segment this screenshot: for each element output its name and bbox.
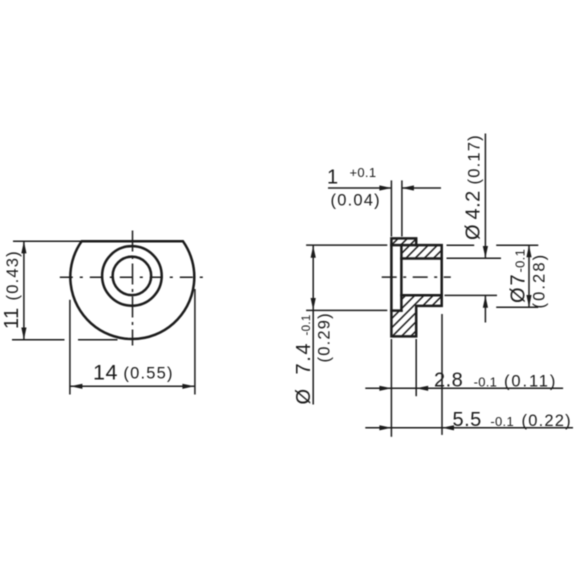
svg-text:(0.29): (0.29) [316, 312, 334, 362]
svg-text:-0.1: -0.1 [490, 414, 514, 429]
dim 11: bottom extension line [12, 339, 65, 341]
svg-text:4.2: 4.2 [463, 190, 485, 219]
svg-text:(0.43): (0.43) [4, 250, 22, 300]
dim Ø7.4: arrow down [311, 298, 316, 310]
svg-text:5.5: 5.5 [453, 409, 482, 431]
D-shaped outline [70, 241, 194, 339]
svg-text:Ø: Ø [508, 287, 530, 303]
svg-text:7.4: 7.4 [293, 342, 315, 375]
svg-text:(0.11): (0.11) [504, 372, 557, 390]
section centerline [382, 276, 451, 278]
svg-text:-0.1: -0.1 [301, 314, 313, 335]
hatching bottom region [353, 293, 482, 339]
dim 1: extension lines [390, 180, 392, 236]
counterbore inner wall [400, 245, 403, 311]
dim 14: arrow left [70, 384, 82, 389]
bore top edge [401, 257, 441, 260]
dim Ø4.2: lower line and arrow [484, 296, 486, 323]
dim Ø7.4: dimension line [312, 246, 314, 405]
boss circle [102, 246, 162, 306]
dim Ø7: arrow down [526, 295, 531, 307]
dim 1: dimension line right part [402, 187, 441, 189]
bottom extension lines [390, 339, 392, 437]
bore circle [113, 257, 152, 296]
dim 2.8: arrow right [379, 386, 391, 391]
dim 14: left extension line [69, 300, 71, 395]
dim 2.8: arrow left [416, 386, 428, 391]
right extension lines [447, 244, 475, 246]
svg-text:Ø: Ø [463, 224, 485, 240]
dim 1: dimension line left part [328, 187, 391, 189]
svg-text:(0.17): (0.17) [466, 134, 484, 184]
dim 5.5: arrow right [379, 425, 391, 430]
svg-text:(0.28): (0.28) [531, 253, 549, 309]
bore bottom edge [401, 294, 441, 297]
svg-text:14: 14 [93, 360, 118, 384]
dim 11: arrow up [21, 241, 26, 253]
svg-text:(0.04): (0.04) [331, 191, 381, 209]
dim 11: dimension line [23, 242, 25, 339]
svg-text:(0.55): (0.55) [123, 364, 173, 382]
dim Ø7.4: extension lines [306, 244, 387, 246]
svg-text:1: 1 [327, 166, 339, 188]
svg-text:Ø: Ø [293, 388, 315, 404]
counterbore top horizontal line [391, 244, 416, 247]
svg-text:+0.1: +0.1 [350, 165, 377, 180]
dim Ø7: dimension line [528, 245, 530, 307]
dim 14: right extension line [194, 289, 196, 395]
dim 1: arrow right [379, 185, 391, 190]
counterbore bottom edge [391, 309, 401, 312]
dim 11: top extension line [13, 240, 83, 242]
svg-text:-0.1: -0.1 [474, 374, 498, 389]
dim 2.8: dimension line [365, 387, 563, 389]
svg-text:7: 7 [508, 274, 530, 286]
svg-text:2.8: 2.8 [434, 369, 463, 391]
hatching top region [376, 236, 465, 261]
dim 14: dimension line [70, 385, 194, 387]
vertical centerline [132, 231, 134, 346]
section outline [391, 238, 441, 336]
svg-text:11: 11 [1, 307, 23, 329]
dim Ø4.2: upper line and arrow [484, 134, 486, 259]
dim 5.5: arrow left [442, 425, 454, 430]
dim Ø7.4: arrow up [311, 246, 316, 258]
dim 14: arrow right [182, 384, 194, 389]
svg-text:(0.22): (0.22) [522, 412, 572, 430]
dim Ø7: arrow up [526, 245, 531, 257]
dim 5.5: dimension line [365, 427, 573, 429]
dim 11: arrow down [21, 328, 26, 340]
dim 1: arrow left [402, 185, 414, 190]
horizontal centerline [60, 276, 210, 278]
svg-text:-0.1: -0.1 [513, 249, 528, 273]
